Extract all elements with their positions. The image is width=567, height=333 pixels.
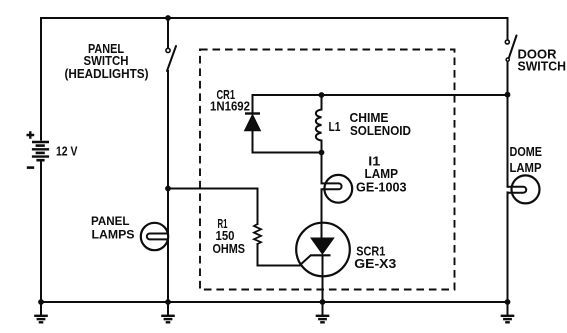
label SCR1 GE-X3 bbox=[354, 245, 396, 271]
SCR1 body circle bbox=[296, 223, 350, 277]
junction dot: top rail / panel switch bbox=[165, 15, 171, 21]
label CR1 1N1692 bbox=[210, 88, 250, 114]
wire L1 top stub bbox=[321, 95, 323, 110]
wire right rail bottom (dome lamp to ground rail) bbox=[507, 192, 509, 302]
svg-text:CHIME: CHIME bbox=[350, 111, 389, 125]
svg-text:SWITCH: SWITCH bbox=[84, 54, 129, 68]
wire left rail upper (battery feed) bbox=[40, 18, 42, 140]
wire SCR cathode to ground rail bbox=[322, 256, 324, 303]
junction dot: ground rail left bbox=[38, 299, 44, 305]
lamp I1 bulb circle bbox=[324, 175, 352, 203]
dashed control-box outline bbox=[200, 50, 455, 290]
svg-text:SWITCH: SWITCH bbox=[518, 59, 567, 73]
label R1 150 OHMS bbox=[213, 217, 246, 256]
svg-text:(HEADLIGHTS): (HEADLIGHTS) bbox=[65, 67, 149, 81]
svg-text:SOLENOID: SOLENOID bbox=[350, 124, 411, 138]
svg-text:OHMS: OHMS bbox=[213, 242, 246, 256]
door switch S2 blade bbox=[509, 36, 517, 58]
junction dot: node B at L1 top bbox=[319, 92, 325, 98]
label DOOR SWITCH bbox=[518, 47, 567, 73]
ground symbol SCR cathode bbox=[316, 302, 330, 322]
label CHIME SOLENOID bbox=[350, 111, 412, 138]
svg-text:12 V: 12 V bbox=[56, 145, 78, 159]
wire bottom ground rail bbox=[41, 301, 508, 303]
svg-text:DOME: DOME bbox=[510, 145, 543, 159]
junction dot: ground rail SCR bbox=[320, 299, 326, 305]
door switch S2 upper contact circle bbox=[505, 40, 509, 44]
svg-text:PANEL: PANEL bbox=[91, 214, 130, 228]
wire R1 top feed bbox=[168, 189, 258, 225]
wire panel lamps branch upper bbox=[167, 71, 169, 234]
diode CR1 triangle (anode, pointing up) bbox=[245, 115, 261, 131]
label PANEL LAMPS bbox=[91, 214, 135, 242]
wire CR1 anode-cathode vertical stubs bbox=[252, 95, 254, 153]
SCR1 cathode bar bbox=[310, 254, 331, 256]
dome lamp filament hairpin bbox=[508, 187, 526, 193]
wire left rail lower bbox=[40, 162, 42, 302]
wire CR1/L1 bottom link bbox=[253, 152, 322, 154]
resistor R1 zigzag bbox=[254, 224, 261, 244]
wire right rail mid (door switch to dome lamp) bbox=[507, 62, 509, 187]
svg-text:1N1692: 1N1692 bbox=[210, 100, 250, 114]
junction dot: ground rail panel lamps bbox=[165, 299, 171, 305]
panel switch S1 blade bbox=[167, 46, 176, 71]
svg-text:GE-1003: GE-1003 bbox=[356, 180, 407, 194]
wire right rail top (to door switch) bbox=[507, 18, 509, 39]
junction dot: node B at door-switch rail bbox=[505, 92, 511, 98]
SCR1 gate lead diagonal bbox=[300, 256, 311, 266]
junction dot: CR1/L1 bottom link bbox=[319, 150, 325, 156]
junction dot: panel lamps / R1 branch bbox=[165, 186, 171, 192]
ground symbol left bbox=[34, 302, 48, 322]
battery plus sign bbox=[27, 131, 35, 139]
inductor L1 coil bbox=[316, 110, 322, 141]
door switch S2 lower contact circle bbox=[506, 58, 509, 61]
label PANEL SWITCH (HEADLIGHTS) bbox=[65, 42, 149, 81]
wire panel lamps branch lower bbox=[167, 239, 169, 302]
svg-text:L1: L1 bbox=[329, 120, 341, 134]
junction dot: ground rail right bbox=[505, 299, 511, 305]
dome lamp bulb circle bbox=[512, 175, 540, 203]
wire top rail bbox=[41, 17, 507, 19]
svg-text:LAMP: LAMP bbox=[510, 161, 542, 175]
wire node B horizontal (box top feed, CR1/L1 to door switch) bbox=[253, 94, 508, 96]
panel lamps bulb circle bbox=[141, 223, 168, 250]
svg-text:LAMP: LAMP bbox=[365, 167, 399, 181]
label I1 LAMP GE-1003 bbox=[356, 154, 407, 194]
label DOME LAMP bbox=[510, 145, 543, 175]
ground symbol right bbox=[501, 302, 515, 322]
ground symbol panel lamps bbox=[161, 302, 175, 322]
wire panel switch drop bbox=[167, 18, 169, 48]
wire R1 bottom to SCR gate bbox=[258, 244, 300, 266]
battery minus sign bbox=[27, 166, 34, 169]
lamp I1 filament hairpin bbox=[322, 183, 342, 189]
SCR1 triangle (pointing down) bbox=[311, 238, 334, 254]
svg-text:GE-X3: GE-X3 bbox=[354, 257, 396, 271]
svg-text:LAMPS: LAMPS bbox=[92, 227, 135, 241]
battery BT1 12V bbox=[32, 142, 49, 160]
diode CR1 1N1692 cathode bar bbox=[245, 112, 260, 114]
wire L1 bottom stub to lamp I1 bbox=[321, 141, 323, 184]
wire lamp I1 to SCR anode bbox=[321, 189, 323, 238]
panel lamps filament hairpin bbox=[147, 234, 168, 240]
panel switch S1 contact circle bbox=[166, 48, 170, 52]
